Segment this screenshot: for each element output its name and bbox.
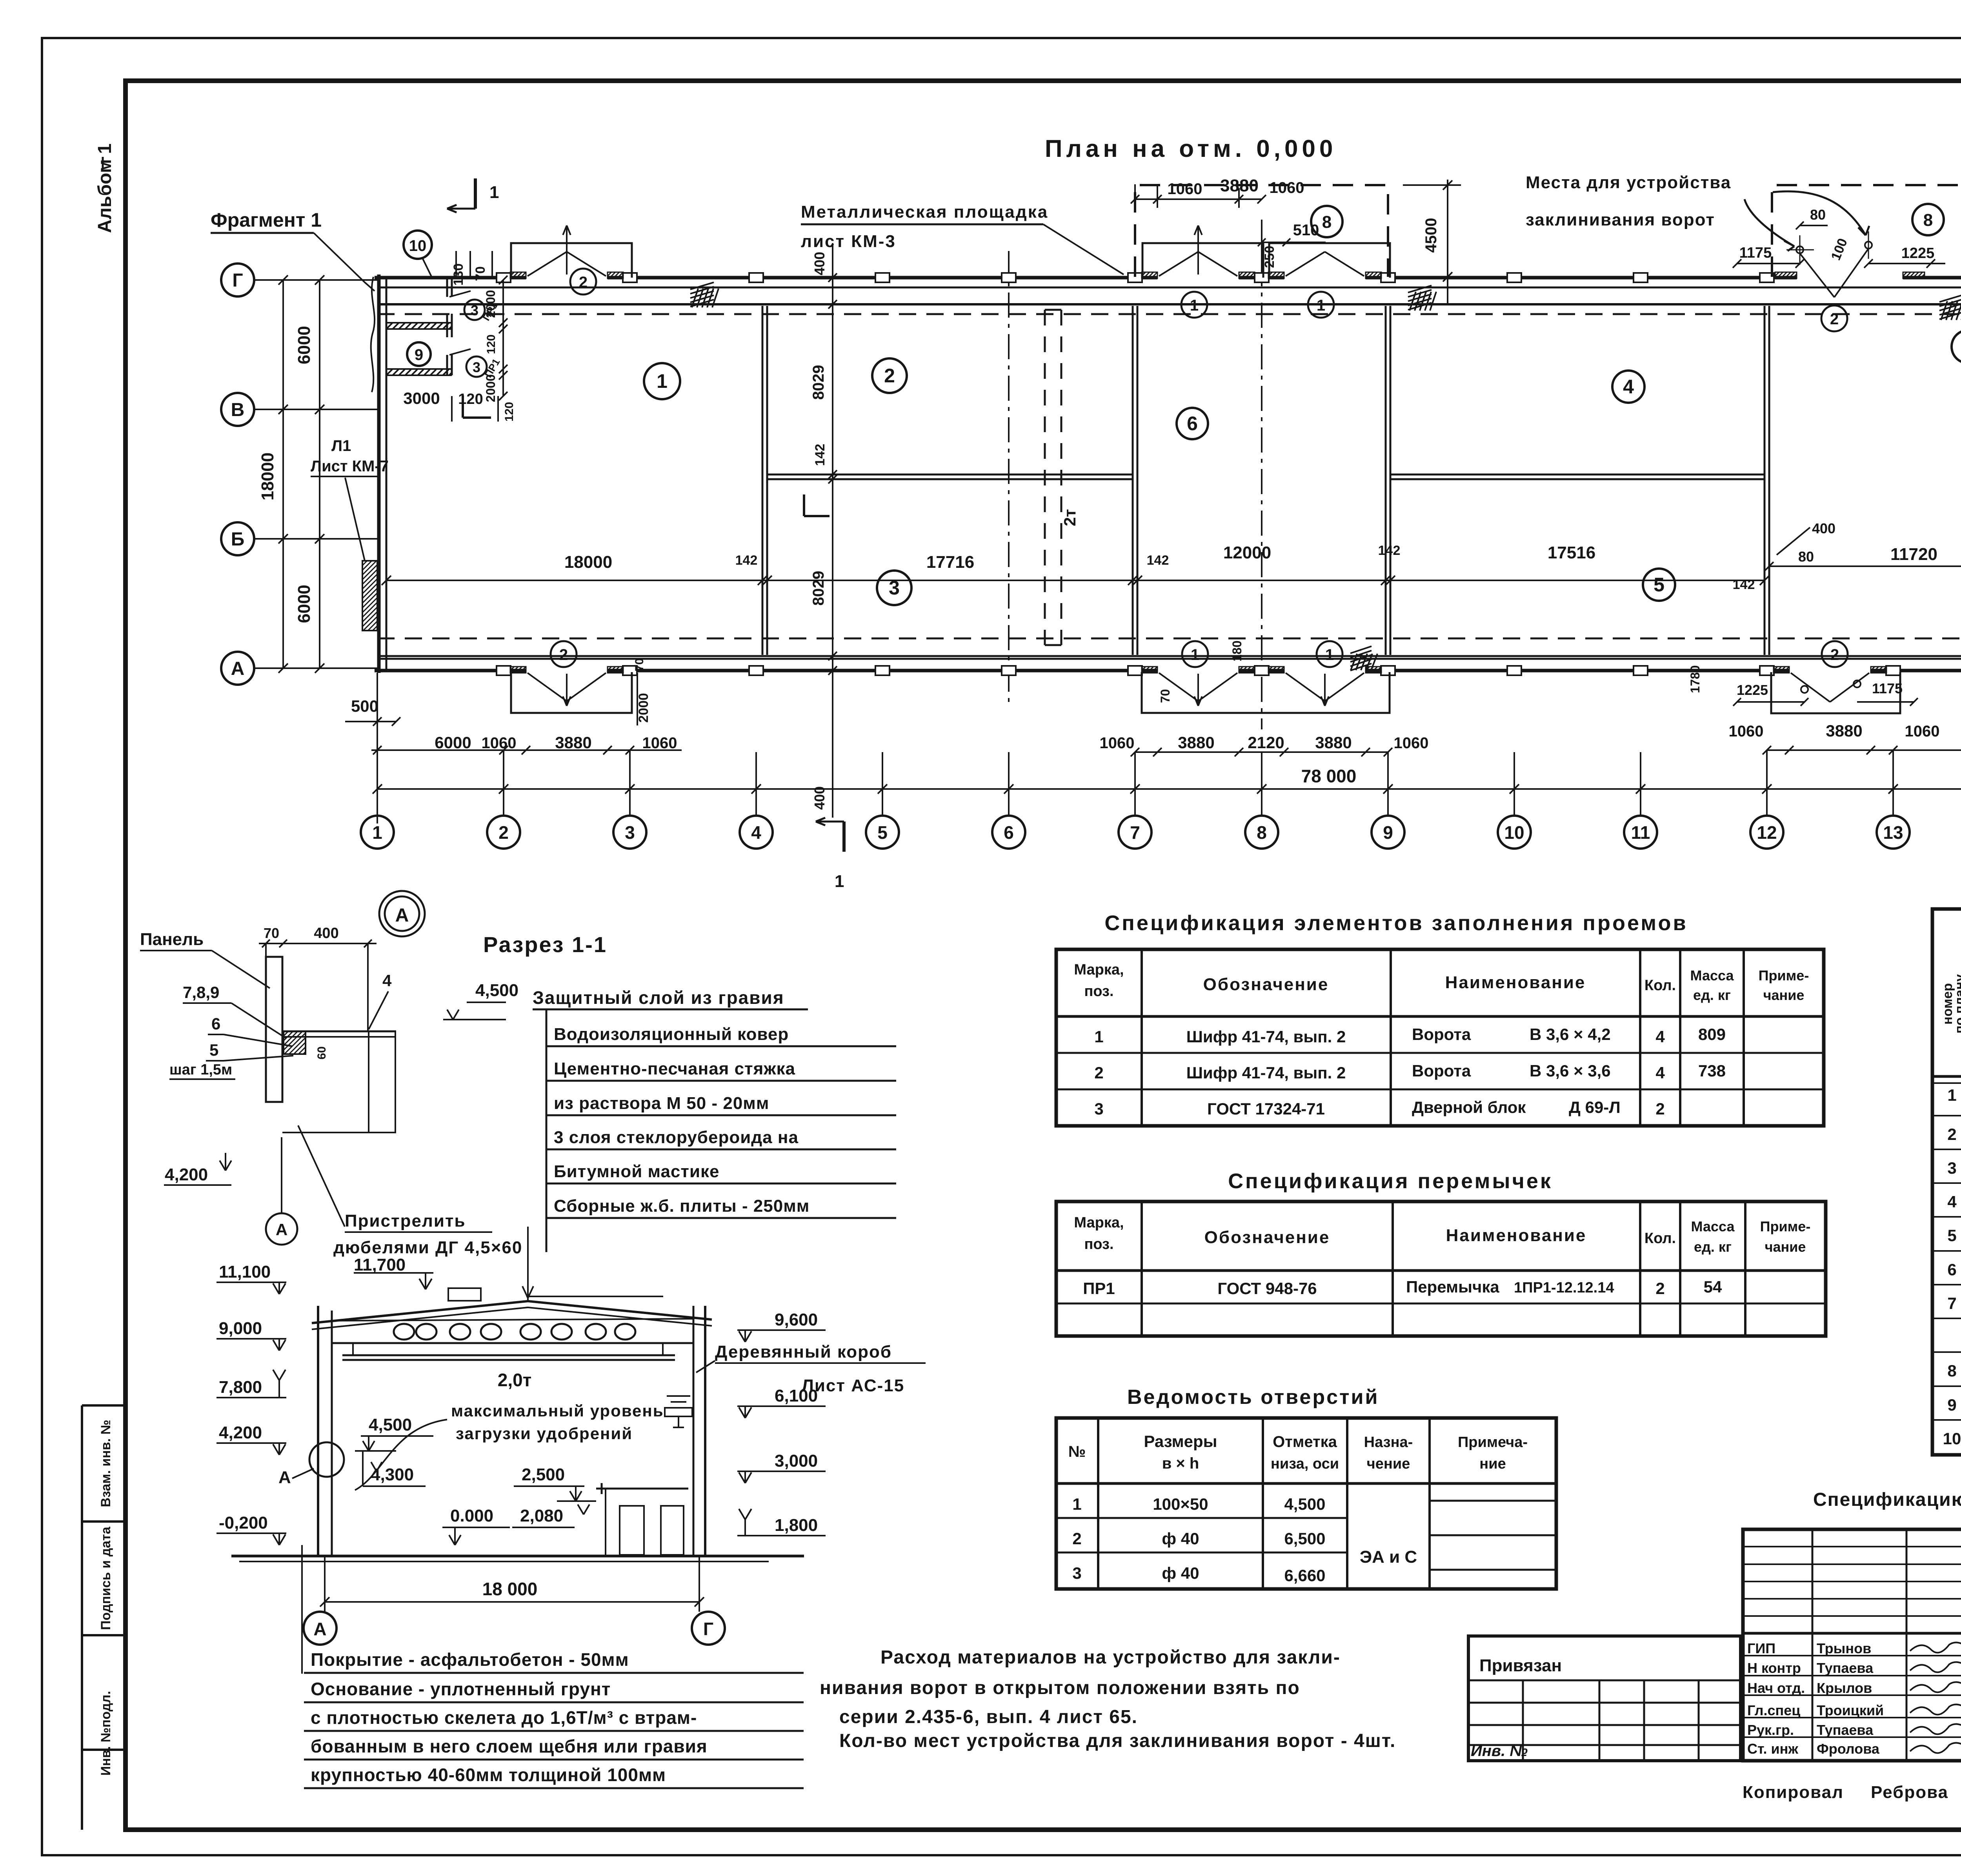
svg-text:Расход материалов на: Расход материалов на устройство для закл… bbox=[880, 1647, 1341, 1668]
section mark 1 bottom bbox=[842, 822, 846, 852]
node hatched block bbox=[284, 1031, 306, 1054]
svg-text:18 000: 18 000 bbox=[482, 1579, 538, 1599]
svg-text:Обозначение: Обозначение bbox=[1204, 1228, 1330, 1247]
svg-text:6: 6 bbox=[1947, 1260, 1956, 1279]
svg-text:5: 5 bbox=[1947, 1226, 1956, 1245]
partition wall axis 12 bbox=[1764, 306, 1766, 655]
svg-text:8: 8 bbox=[1322, 213, 1332, 232]
svg-text:ние: ние bbox=[1479, 1456, 1506, 1472]
svg-text:2120: 2120 bbox=[1248, 733, 1284, 752]
svg-text:3,000: 3,000 bbox=[775, 1451, 818, 1471]
svg-text:1225: 1225 bbox=[1737, 682, 1768, 698]
svg-text:Тупаева: Тупаева bbox=[1817, 1660, 1874, 1676]
L-mark room 3 bbox=[803, 494, 805, 516]
mid partition rooms 2-3 bbox=[767, 474, 1133, 476]
section ground line bbox=[231, 1555, 804, 1558]
svg-text:Масса: Масса bbox=[1690, 967, 1734, 983]
svg-text:ГОСТ 948-76: ГОСТ 948-76 bbox=[1217, 1279, 1317, 1298]
partition wall axis 7 bbox=[1132, 306, 1134, 655]
svg-text:1: 1 bbox=[1072, 1495, 1081, 1513]
svg-text:738: 738 bbox=[1698, 1062, 1726, 1080]
svg-text:бованным в него слоем щебн: бованным в него слоем щебня или гравия bbox=[311, 1736, 708, 1756]
svg-text:крупностью 40-60мм толщин: крупностью 40-60мм толщиной 100мм bbox=[311, 1765, 666, 1785]
svg-text:6: 6 bbox=[1004, 822, 1014, 843]
svg-text:Разрез 1-1: Разрез 1-1 bbox=[483, 932, 607, 957]
spec elementov table box bbox=[1056, 949, 1824, 1126]
svg-text:11,700: 11,700 bbox=[354, 1255, 406, 1274]
node A bubble bottom bbox=[266, 1213, 297, 1245]
svg-text:1225: 1225 bbox=[1901, 245, 1935, 262]
svg-text:загрузки удобрений: загрузки удобрений bbox=[456, 1424, 633, 1443]
svg-text:Марка,: Марка, bbox=[1074, 962, 1124, 978]
svg-text:400: 400 bbox=[314, 925, 338, 942]
svg-text:4,500: 4,500 bbox=[369, 1415, 412, 1434]
partition wall axis 9 bbox=[1385, 306, 1387, 655]
gate swing lines bbox=[1159, 252, 1198, 276]
svg-text:1: 1 bbox=[1094, 1027, 1103, 1046]
axis number bubbles bbox=[361, 816, 394, 849]
svg-text:80: 80 bbox=[1798, 549, 1814, 565]
svg-text:7: 7 bbox=[1947, 1294, 1956, 1312]
svg-text:в × h: в × h bbox=[1162, 1455, 1199, 1472]
gate jamb hatch bottom left bbox=[510, 667, 526, 673]
svg-text:ф 40: ф 40 bbox=[1162, 1564, 1199, 1582]
svg-text:ед. кг: ед. кг bbox=[1694, 1239, 1732, 1255]
svg-text:78 000: 78 000 bbox=[1301, 766, 1357, 786]
svg-text:6000: 6000 bbox=[295, 585, 314, 623]
door leaf room 9 bbox=[449, 349, 471, 355]
vertical dim chain 8029-142-8029 bbox=[832, 243, 833, 818]
svg-text:1: 1 bbox=[835, 872, 844, 891]
node horizontal element bbox=[282, 1031, 396, 1033]
dim 1060 3880 1060 top bbox=[1135, 198, 1262, 200]
svg-text:Назна-: Назна- bbox=[1364, 1434, 1413, 1451]
svg-text:Тупаева: Тупаева bbox=[1817, 1722, 1874, 1738]
svg-text:Альбом 1: Альбом 1 bbox=[95, 144, 115, 233]
gate top-right label 2 bbox=[1821, 305, 1847, 331]
room bubble 4 bbox=[1612, 371, 1644, 403]
column joints on walls bbox=[497, 273, 511, 282]
bottom gates labels 1 bbox=[1182, 641, 1208, 667]
svg-text:3: 3 bbox=[625, 822, 635, 843]
svg-text:11: 11 bbox=[1631, 822, 1650, 843]
canopy box axes 7-9 dashed bbox=[1135, 185, 1388, 277]
svg-text:1: 1 bbox=[657, 370, 668, 392]
svg-text:Спецификация элементов запол: Спецификация элементов заполнения проемо… bbox=[1104, 911, 1688, 935]
svg-text:№: № bbox=[1068, 1443, 1086, 1460]
svg-text:9,000: 9,000 bbox=[219, 1319, 262, 1338]
svg-text:100×50: 100×50 bbox=[1153, 1495, 1208, 1513]
svg-text:2: 2 bbox=[579, 274, 588, 291]
svg-text:10: 10 bbox=[409, 237, 427, 254]
svg-text:2: 2 bbox=[498, 822, 509, 843]
node vertical line bbox=[395, 1031, 396, 1133]
svg-text:4: 4 bbox=[1655, 1063, 1665, 1082]
svg-text:В 3,6 × 4,2: В 3,6 × 4,2 bbox=[1530, 1025, 1611, 1043]
svg-text:5: 5 bbox=[1654, 574, 1664, 596]
svg-text:Битумной мастике: Битумной мастике bbox=[554, 1162, 719, 1181]
gate top-right opening jamb hatches bbox=[1775, 272, 1797, 278]
svg-text:1060: 1060 bbox=[1905, 723, 1940, 740]
svg-text:Кол.: Кол. bbox=[1644, 1230, 1676, 1247]
svg-text:А: А bbox=[231, 658, 245, 679]
svg-text:3: 3 bbox=[1094, 1100, 1103, 1118]
section sluzhebnoe room bbox=[596, 1488, 688, 1490]
spec peremychek table box bbox=[1056, 1202, 1826, 1336]
svg-text:2: 2 bbox=[884, 365, 895, 387]
wall hatch patch 4 bbox=[1350, 646, 1372, 653]
svg-text:1175: 1175 bbox=[1739, 245, 1772, 261]
gate jamb hatch left bbox=[510, 272, 526, 278]
svg-text:максимальный уровень: максимальный уровень bbox=[451, 1402, 664, 1420]
svg-text:2,500: 2,500 bbox=[522, 1465, 565, 1484]
svg-text:Приме-: Приме- bbox=[1760, 1218, 1811, 1234]
room bubble 1 bbox=[644, 363, 680, 399]
svg-text:3880: 3880 bbox=[1826, 722, 1862, 740]
canopy label 8 right bbox=[1912, 204, 1944, 235]
svg-text:4,200: 4,200 bbox=[165, 1165, 208, 1184]
svg-text:1: 1 bbox=[489, 183, 499, 202]
L1 hatched strip on wall bbox=[362, 561, 377, 631]
svg-text:70: 70 bbox=[633, 658, 646, 671]
svg-text:4: 4 bbox=[1947, 1192, 1957, 1211]
svg-text:2т: 2т bbox=[1061, 509, 1079, 526]
svg-text:70: 70 bbox=[473, 266, 488, 281]
svg-text:3880: 3880 bbox=[1315, 733, 1352, 752]
bottom gate bay 12-13 bbox=[1771, 672, 1900, 713]
svg-text:6000: 6000 bbox=[435, 733, 471, 752]
svg-text:Металлическая площадка: Металлическая площадка bbox=[801, 202, 1048, 222]
svg-text:1: 1 bbox=[1191, 646, 1199, 664]
svg-text:2: 2 bbox=[1655, 1279, 1664, 1298]
room bubble 7 bbox=[1952, 330, 1961, 363]
svg-text:Спецификацию на поз. 4-9: Спецификацию на поз. 4-9 по узлу А см. А… bbox=[1813, 1489, 1961, 1510]
canopy label 8 left bbox=[1311, 206, 1343, 237]
left dim line 6000 segments bbox=[319, 280, 320, 668]
svg-text:1175: 1175 bbox=[1872, 680, 1903, 696]
svg-text:Приме-: Приме- bbox=[1759, 967, 1809, 983]
svg-text:142: 142 bbox=[813, 444, 828, 466]
svg-text:1: 1 bbox=[1317, 297, 1325, 314]
eksplikaciya row lines bbox=[1932, 1115, 1961, 1116]
svg-text:1: 1 bbox=[1947, 1086, 1956, 1104]
plan left wall bbox=[377, 274, 381, 673]
svg-text:серии 2.435-6, вып. 4 лист: серии 2.435-6, вып. 4 лист 65. bbox=[839, 1707, 1138, 1727]
room 9 bubble bbox=[407, 342, 431, 366]
svg-text:1: 1 bbox=[372, 822, 382, 843]
svg-text:250: 250 bbox=[1262, 246, 1277, 268]
svg-text:заклинивания ворот: заклинивания ворот bbox=[1526, 210, 1715, 229]
room bubble 6 bbox=[1177, 408, 1208, 439]
svg-text:142: 142 bbox=[1733, 577, 1755, 592]
svg-text:17716: 17716 bbox=[926, 553, 974, 572]
wall hatch patch 2 bbox=[1408, 285, 1432, 293]
svg-text:500: 500 bbox=[351, 697, 378, 715]
svg-text:по плану: по плану bbox=[1952, 974, 1961, 1033]
svg-text:400: 400 bbox=[811, 252, 828, 275]
bottom-center dim row 1060 3880 2120 3880 1060 bbox=[1135, 751, 1388, 753]
bottom gates bay 7-9 common box bbox=[1142, 672, 1390, 713]
svg-text:9: 9 bbox=[1383, 822, 1393, 843]
svg-text:7,8,9: 7,8,9 bbox=[183, 983, 219, 1002]
gate leaf box bottom bbox=[511, 672, 632, 713]
svg-text:чание: чание bbox=[1765, 1239, 1806, 1255]
svg-text:3880: 3880 bbox=[555, 733, 591, 752]
svg-text:60: 60 bbox=[315, 1046, 328, 1059]
svg-text:5: 5 bbox=[877, 822, 888, 843]
svg-text:2: 2 bbox=[559, 646, 568, 664]
section crane trolley bbox=[667, 1395, 690, 1397]
svg-text:Лист АС-15: Лист АС-15 bbox=[802, 1376, 904, 1395]
svg-text:2: 2 bbox=[1072, 1529, 1081, 1548]
svg-text:3: 3 bbox=[1947, 1159, 1956, 1177]
svg-text:Ст. инж: Ст. инж bbox=[1747, 1741, 1798, 1757]
svg-text:Гл.спец: Гл.спец bbox=[1747, 1702, 1800, 1718]
gate swing lines bbox=[528, 252, 567, 276]
svg-text:Шифр 41-74, вып. 2: Шифр 41-74, вып. 2 bbox=[1186, 1027, 1346, 1046]
axis letter circles bbox=[221, 264, 254, 296]
svg-text:Нач отд.: Нач отд. bbox=[1747, 1680, 1805, 1696]
svg-text:130: 130 bbox=[451, 264, 466, 286]
eksplikaciya table box bbox=[1932, 909, 1961, 1455]
svg-text:2: 2 bbox=[1947, 1125, 1956, 1143]
svg-text:18000: 18000 bbox=[258, 453, 277, 500]
svg-text:4,200: 4,200 bbox=[219, 1423, 262, 1442]
gate leaf box top bbox=[511, 243, 632, 278]
svg-text:10: 10 bbox=[1504, 822, 1524, 843]
svg-text:Спецификация перемычек: Спецификация перемычек bbox=[1228, 1169, 1553, 1193]
gate top-right pivot left bbox=[1796, 246, 1803, 253]
svg-text:Покрытие - асфальтобетон - 5: Покрытие - асфальтобетон - 50мм bbox=[311, 1649, 629, 1670]
svg-text:Лист КМ-7: Лист КМ-7 bbox=[311, 458, 389, 475]
plan top wall dashed canopy line bbox=[377, 313, 1961, 315]
svg-text:Пристрелить: Пристрелить bbox=[345, 1211, 466, 1231]
svg-text:2000: 2000 bbox=[484, 290, 498, 318]
axis 8 centerline bbox=[1261, 220, 1262, 729]
section axis G bubble bbox=[692, 1612, 725, 1645]
gate jamb hatch right bbox=[608, 272, 623, 278]
dim 4500 canopy bbox=[1447, 180, 1448, 304]
svg-text:В: В bbox=[231, 400, 245, 420]
uzel A bubble bbox=[379, 891, 425, 936]
svg-text:Деревянный короб: Деревянный короб bbox=[715, 1342, 892, 1362]
svg-text:70: 70 bbox=[264, 925, 279, 941]
svg-text:Защитный слой из гравия: Защитный слой из гравия bbox=[533, 987, 784, 1008]
svg-text:54: 54 bbox=[1704, 1278, 1722, 1296]
gate top-right pivot right bbox=[1865, 242, 1872, 249]
svg-text:Перемычка: Перемычка bbox=[1406, 1278, 1499, 1296]
svg-text:Кол-во мест устройства для: Кол-во мест устройства для заклинивания … bbox=[839, 1731, 1396, 1751]
svg-text:ГИП: ГИП bbox=[1747, 1640, 1775, 1656]
svg-text:4: 4 bbox=[382, 971, 392, 990]
svg-text:70: 70 bbox=[1158, 689, 1172, 703]
room 9-10 partition walls hatched bbox=[386, 322, 452, 324]
svg-text:Подпись и дата: Подпись и дата bbox=[98, 1526, 113, 1630]
svg-text:Наименование: Наименование bbox=[1446, 1226, 1587, 1245]
svg-text:3: 3 bbox=[889, 577, 900, 599]
svg-text:Рук.гр.: Рук.гр. bbox=[1747, 1722, 1794, 1738]
svg-text:142: 142 bbox=[1147, 553, 1169, 568]
svg-text:Панель: Панель bbox=[140, 930, 204, 949]
svg-text:809: 809 bbox=[1698, 1025, 1726, 1043]
svg-text:ф 40: ф 40 bbox=[1162, 1529, 1199, 1548]
svg-text:400: 400 bbox=[1812, 520, 1835, 536]
svg-text:2: 2 bbox=[1655, 1100, 1664, 1118]
gate leaf box top bbox=[1142, 243, 1263, 278]
svg-text:7: 7 bbox=[1130, 822, 1140, 843]
svg-text:ПР1: ПР1 bbox=[1083, 1279, 1115, 1298]
gate jamb hatch bottom right bbox=[608, 667, 623, 673]
svg-text:120: 120 bbox=[485, 334, 498, 354]
section mark 1 top bbox=[474, 178, 477, 209]
svg-text:6: 6 bbox=[1187, 413, 1198, 434]
svg-text:180: 180 bbox=[1230, 640, 1244, 661]
svg-text:4500: 4500 bbox=[1423, 218, 1440, 253]
svg-text:-0,200: -0,200 bbox=[219, 1513, 268, 1532]
svg-text:Реброва: Реброва bbox=[1871, 1783, 1948, 1802]
svg-text:8029: 8029 bbox=[810, 571, 827, 606]
crane track 2t dashed bbox=[1044, 310, 1046, 645]
svg-text:6,500: 6,500 bbox=[1284, 1529, 1325, 1548]
svg-text:Примеча-: Примеча- bbox=[1458, 1434, 1528, 1451]
gate label 1 bbox=[1181, 292, 1207, 318]
axis extension lines bottom bbox=[377, 750, 378, 815]
svg-text:142: 142 bbox=[735, 553, 758, 568]
svg-text:дюбелями ДГ 4,5×60: дюбелями ДГ 4,5×60 bbox=[333, 1238, 522, 1257]
svg-text:8: 8 bbox=[1923, 211, 1933, 230]
svg-text:1060: 1060 bbox=[482, 734, 517, 752]
svg-text:4: 4 bbox=[1623, 376, 1634, 398]
svg-text:9: 9 bbox=[415, 346, 423, 364]
svg-text:А: А bbox=[276, 1220, 287, 1239]
svg-text:поз.: поз. bbox=[1084, 1236, 1113, 1252]
svg-text:9,600: 9,600 bbox=[775, 1310, 818, 1329]
svg-text:510: 510 bbox=[1293, 222, 1319, 239]
svg-text:А: А bbox=[278, 1468, 291, 1487]
gate leaf box top bbox=[1269, 243, 1390, 278]
svg-text:Масса: Масса bbox=[1691, 1218, 1735, 1234]
svg-text:Места для устройства: Места для устройства bbox=[1526, 173, 1731, 192]
svg-text:8029: 8029 bbox=[810, 365, 827, 400]
svg-text:2: 2 bbox=[1830, 311, 1839, 328]
svg-text:120: 120 bbox=[503, 402, 516, 422]
plan top wall outer line bbox=[375, 276, 526, 280]
svg-text:18000: 18000 bbox=[564, 553, 612, 572]
plan bottom wall dashed line bbox=[377, 638, 1961, 640]
partition wall axis 4 bbox=[762, 306, 764, 655]
svg-text:3: 3 bbox=[473, 359, 480, 375]
svg-text:Г: Г bbox=[703, 1619, 713, 1639]
svg-text:Марка,: Марка, bbox=[1074, 1214, 1124, 1231]
room bubble 3 bbox=[877, 571, 911, 605]
svg-text:1060: 1060 bbox=[1168, 180, 1202, 198]
svg-text:142: 142 bbox=[1378, 543, 1401, 558]
door mark 3 upper bbox=[464, 300, 485, 320]
svg-text:Инв. №подл.: Инв. №подл. bbox=[98, 1691, 113, 1776]
svg-text:Водоизоляционный ковер: Водоизоляционный ковер bbox=[554, 1025, 789, 1044]
gate swing lines bbox=[1286, 252, 1325, 276]
svg-text:1ПР1-12.12.14: 1ПР1-12.12.14 bbox=[1514, 1280, 1614, 1296]
canopy box axes 12-14 dashed bbox=[1772, 185, 1961, 277]
svg-text:1: 1 bbox=[1190, 297, 1199, 314]
svg-text:13: 13 bbox=[1883, 822, 1903, 843]
svg-text:ед. кг: ед. кг bbox=[1693, 987, 1731, 1003]
fragment boundary wavy line bbox=[371, 277, 375, 392]
gate top-right swing lines bbox=[1800, 253, 1834, 297]
title block main box bbox=[1743, 1529, 1961, 1761]
section left column bbox=[317, 1306, 319, 1556]
svg-text:1060: 1060 bbox=[642, 734, 677, 752]
svg-text:4: 4 bbox=[751, 822, 761, 843]
svg-text:12: 12 bbox=[1757, 822, 1777, 843]
svg-text:11,100: 11,100 bbox=[219, 1262, 271, 1282]
svg-text:2,0т: 2,0т bbox=[498, 1370, 531, 1390]
room 10 bubble bbox=[404, 231, 432, 259]
svg-text:Привязан: Привязан bbox=[1479, 1656, 1562, 1675]
svg-text:1060: 1060 bbox=[1394, 734, 1429, 752]
svg-text:Кол.: Кол. bbox=[1644, 977, 1676, 994]
svg-text:А: А bbox=[395, 905, 409, 926]
svg-text:3880: 3880 bbox=[1178, 733, 1214, 752]
section roof lines bbox=[312, 1301, 712, 1323]
section parapet box bbox=[448, 1288, 481, 1301]
svg-text:2000: 2000 bbox=[636, 693, 651, 723]
svg-text:1060: 1060 bbox=[1270, 179, 1304, 196]
wall hatch patch 3 bbox=[1939, 295, 1961, 302]
gate jamb hatch left bbox=[1268, 272, 1284, 278]
overall dim 78000 bbox=[377, 788, 1961, 790]
plan top wall second line bbox=[377, 287, 1961, 289]
svg-text:6: 6 bbox=[211, 1014, 220, 1033]
svg-text:нивания ворот в открытом: нивания ворот в открытом положении взять… bbox=[820, 1678, 1300, 1698]
svg-text:Г: Г bbox=[232, 270, 243, 291]
svg-text:В 3,6 × 3,6: В 3,6 × 3,6 bbox=[1530, 1062, 1611, 1080]
svg-text:2: 2 bbox=[1830, 646, 1839, 664]
wall hatch patch 1 bbox=[690, 282, 714, 289]
svg-text:Крылов: Крылов bbox=[1817, 1680, 1872, 1696]
door mark 3 lower bbox=[466, 356, 487, 377]
svg-text:Наименование: Наименование bbox=[1445, 973, 1586, 992]
svg-text:6,660: 6,660 bbox=[1284, 1566, 1325, 1585]
svg-text:3 слоя стеклорубероида на: 3 слоя стеклорубероида на bbox=[554, 1128, 799, 1147]
title block privyazan box bbox=[1468, 1636, 1741, 1761]
section fascia circles bbox=[394, 1324, 414, 1340]
gate label 1 bbox=[1308, 292, 1334, 318]
svg-text:Шифр 41-74, вып. 2: Шифр 41-74, вып. 2 bbox=[1186, 1063, 1346, 1082]
svg-text:4,300: 4,300 bbox=[371, 1465, 414, 1484]
svg-text:5: 5 bbox=[209, 1041, 218, 1059]
svg-text:Сборные ж.б. плиты - 25: Сборные ж.б. плиты - 250мм bbox=[554, 1196, 810, 1216]
room bubble 5 bbox=[1643, 569, 1675, 601]
svg-text:Взам. инв. №: Взам. инв. № bbox=[98, 1420, 113, 1507]
section bottom dim 18000 bbox=[324, 1556, 326, 1612]
svg-text:поз.: поз. bbox=[1084, 983, 1113, 1000]
node panel strip bbox=[266, 957, 282, 1102]
gate swing lines bottom bbox=[528, 673, 567, 701]
gate jamb hatch left bbox=[1142, 272, 1157, 278]
svg-text:8: 8 bbox=[1947, 1362, 1956, 1380]
svg-text:3: 3 bbox=[471, 302, 478, 318]
svg-text:0.000: 0.000 bbox=[450, 1506, 493, 1525]
svg-text:Троицкий: Троицкий bbox=[1817, 1702, 1884, 1718]
section node A circle bbox=[309, 1442, 344, 1477]
svg-text:Ведомость отверстий: Ведомость отверстий bbox=[1127, 1386, 1379, 1409]
room 9-10 vertical wall bbox=[446, 279, 448, 297]
svg-text:4: 4 bbox=[1655, 1027, 1665, 1046]
svg-text:План на отм. 0,000: План на отм. 0,000 bbox=[1045, 135, 1337, 162]
svg-text:чание: чание bbox=[1763, 987, 1805, 1003]
svg-text:Фролова: Фролова bbox=[1817, 1741, 1880, 1757]
